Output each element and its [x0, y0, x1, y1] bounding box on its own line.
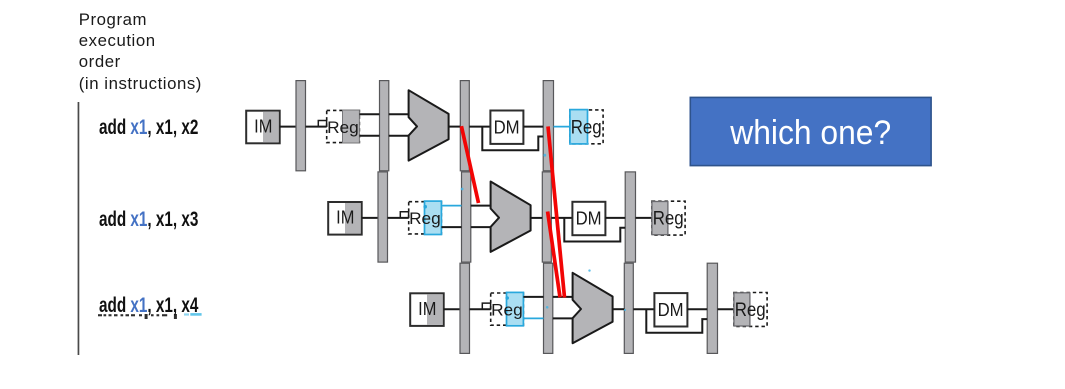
- svg-text:DM: DM: [658, 299, 684, 320]
- svg-text:Reg: Reg: [653, 208, 684, 229]
- svg-text:DM: DM: [494, 116, 520, 137]
- svg-text:Reg: Reg: [491, 301, 523, 319]
- svg-text:Reg: Reg: [735, 299, 766, 320]
- svg-text:IM: IM: [418, 298, 436, 319]
- svg-text:IM: IM: [336, 207, 354, 228]
- svg-text:Reg: Reg: [327, 118, 359, 136]
- svg-text:Reg: Reg: [571, 116, 602, 137]
- svg-text:Reg: Reg: [409, 210, 441, 228]
- svg-text:which one?: which one?: [729, 113, 891, 151]
- svg-text:IM: IM: [254, 115, 272, 136]
- svg-text:DM: DM: [576, 208, 602, 229]
